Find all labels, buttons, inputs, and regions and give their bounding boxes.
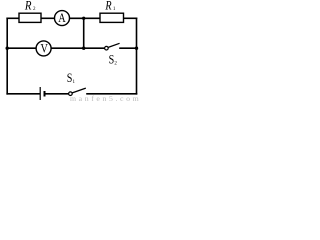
wire S1 to bottom-right xyxy=(87,93,137,95)
svg-text:manfen5.com: manfen5.com xyxy=(70,94,140,103)
wire battery to switch S1 xyxy=(45,93,68,95)
wire R2 to ammeter xyxy=(41,17,55,19)
svg-text:R: R xyxy=(105,0,112,12)
switch S2 pivot xyxy=(105,46,109,50)
resistor R2 body xyxy=(19,13,41,22)
battery cell short plate xyxy=(44,91,46,97)
voltmeter V1 xyxy=(36,41,51,56)
svg-text:1: 1 xyxy=(73,80,76,85)
svg-text:R: R xyxy=(24,0,32,12)
wire left vertical xyxy=(6,18,8,94)
switch S1 pivot xyxy=(69,92,73,96)
wire ammeter to node A xyxy=(70,17,100,19)
wire R1 to top-right corner xyxy=(124,17,137,19)
node C junction dot xyxy=(135,47,138,50)
svg-text:S: S xyxy=(109,53,115,67)
wire S2 to node C xyxy=(120,47,137,49)
resistor R1 body xyxy=(100,13,124,22)
wire bottom-left to battery xyxy=(7,93,39,95)
wire branch vertical node A to node B xyxy=(83,18,85,48)
svg-text:A: A xyxy=(58,10,66,25)
switch S2 lever xyxy=(108,43,119,47)
switch S1 lever xyxy=(72,88,86,93)
wire top-left to R2 xyxy=(7,17,19,19)
svg-text:2: 2 xyxy=(33,7,36,12)
wire voltmeter to switch S2 xyxy=(51,47,104,49)
svg-text:1: 1 xyxy=(113,7,116,12)
node left junction dot xyxy=(6,47,9,50)
svg-text:2: 2 xyxy=(114,62,117,67)
svg-text:V: V xyxy=(41,40,49,55)
battery cell long plate xyxy=(39,87,41,100)
node B junction dot xyxy=(82,47,85,50)
ammeter A1 xyxy=(55,11,70,26)
wire middle-left to voltmeter xyxy=(7,47,36,49)
wire right vertical xyxy=(136,18,138,94)
node A junction dot xyxy=(82,17,85,20)
circuit schematic: battery + S1 in series; R2 with ammeter; R1 paralleled by S2; voltmeter across branch xyxy=(0,0,140,103)
